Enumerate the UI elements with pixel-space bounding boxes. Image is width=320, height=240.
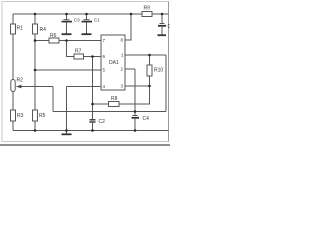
capacitor C3 thick plate <box>62 21 73 23</box>
resistor R8 <box>109 102 120 107</box>
svg-text:R8: R8 <box>111 96 118 102</box>
junction node pin1 wire at R10 top <box>148 54 151 57</box>
capacitor C4 thick plate <box>132 117 140 119</box>
wire R7 to IC pin 6 <box>84 56 102 58</box>
capacitor C5 thick plate <box>158 25 166 27</box>
wire pin 8 branch to rail <box>125 14 131 40</box>
svg-text:R7: R7 <box>75 49 82 55</box>
wire R8 right segment and riser to pin3 node <box>119 86 150 104</box>
op-amp IC DA1 box <box>101 35 125 90</box>
junction node R6 wire at R7 branch <box>65 39 68 42</box>
ground bar under C3 <box>62 33 72 35</box>
wire top supply rail right part <box>152 13 169 15</box>
wire R10 bottom lead <box>149 76 151 86</box>
resistor R1 <box>11 24 16 34</box>
svg-text:R10: R10 <box>154 68 163 74</box>
wire C4 column upper <box>134 69 136 116</box>
svg-text:R1: R1 <box>17 26 24 32</box>
capacitor C1 thick plate <box>82 21 93 23</box>
wire R6 to IC pin 7 <box>59 40 101 42</box>
wire column A top lead to R1 <box>12 14 14 24</box>
resistor R10 <box>147 65 152 76</box>
wire ground column <box>66 87 68 131</box>
wire horizontal to C4 node <box>53 111 135 113</box>
resistor R9 <box>142 12 152 17</box>
potentiometer R2 wiper arrowhead <box>16 85 22 89</box>
page separator rule <box>0 144 170 146</box>
junction node pin5 wire at column B <box>34 69 37 72</box>
capacitor C4 thin plate <box>133 115 138 117</box>
svg-text:C4: C4 <box>143 116 150 122</box>
capacitor C3 bottom lead <box>66 22 68 33</box>
svg-text:C1: C1 <box>94 18 100 23</box>
capacitor C3 thin plate <box>64 19 70 21</box>
resistor R3 <box>11 110 16 121</box>
capacitor C3 top lead <box>66 14 68 20</box>
junction node rail-pin8 <box>130 13 133 16</box>
wire pin 5 from column B <box>35 69 101 71</box>
resistor R6 <box>49 38 59 43</box>
wire pin 4 to ground column corner <box>67 86 102 88</box>
svg-text:DA1: DA1 <box>109 60 119 66</box>
wire ground bus <box>13 130 169 132</box>
ground symbol bar <box>62 133 72 135</box>
svg-text:R3: R3 <box>17 113 24 119</box>
resistor R5 <box>33 110 38 121</box>
wire R1 bottom to R2 <box>12 34 14 80</box>
wire column B top lead to R4 <box>34 14 36 24</box>
wire pin 3 to R10 bottom node <box>125 85 150 87</box>
capacitor C1 top lead <box>86 14 88 20</box>
wire pin 1 to right bus <box>125 54 166 56</box>
frame right border darker <box>168 2 170 142</box>
wire column B R4 down to R5 <box>34 34 36 110</box>
junction node rail-C5 <box>161 13 164 16</box>
ground bar under C1 <box>82 33 92 35</box>
svg-text:C2: C2 <box>99 119 106 125</box>
wire right bus vertical <box>165 55 167 112</box>
wire corner down from wiper <box>52 87 54 112</box>
svg-text:R9: R9 <box>144 6 151 12</box>
wire C2 column upper from pin6 node <box>92 57 94 120</box>
junction node y111 wire at C4 column <box>134 110 137 113</box>
junction node rail-R4 <box>34 13 37 16</box>
wire R2 bottom to R3 <box>12 92 14 111</box>
wire branch down to R7 <box>67 41 75 57</box>
junction node pin3 wire at R10 bottom <box>148 85 151 88</box>
junction node bus at ground column <box>65 129 68 132</box>
junction node bus at C4 <box>134 129 137 132</box>
junction node R8 wire at C2 column <box>91 103 94 106</box>
svg-text:R5: R5 <box>39 113 46 119</box>
potentiometer R2 body <box>11 80 15 92</box>
capacitor C2 plate bottom <box>90 121 96 123</box>
junction node R6 wire at column B <box>34 39 37 42</box>
svg-text:R4: R4 <box>40 27 47 33</box>
wire C4 node to right bus corner <box>135 111 166 113</box>
wire R5 bottom to bus <box>34 121 36 131</box>
wire C2 bottom lead to bus <box>92 123 94 131</box>
wire R8 left segment from C2 node <box>93 103 109 105</box>
svg-text:C5: C5 <box>168 24 171 30</box>
svg-text:C3: C3 <box>74 18 80 23</box>
capacitor C2 plate top <box>90 119 96 121</box>
junction node bus at column B <box>34 129 37 132</box>
wire R3 bottom to ground bus corner <box>12 121 14 131</box>
svg-text:R6: R6 <box>50 33 57 39</box>
wire R6 left segment <box>35 40 49 42</box>
wire pin 2 to C4 column <box>125 68 135 70</box>
svg-text:R2: R2 <box>17 78 24 84</box>
resistor R7 <box>74 54 84 59</box>
capacitor C5 top lead <box>161 14 163 24</box>
wire top supply rail left part <box>13 13 142 15</box>
ground bar under C5 <box>158 34 167 36</box>
frame border of schematic <box>2 2 169 142</box>
capacitor C1 thin plate <box>84 19 90 21</box>
capacitor C1 bottom lead <box>86 22 88 33</box>
resistor R4 <box>33 24 38 34</box>
junction node bus at C2 <box>91 129 94 132</box>
ground symbol stub below bus <box>66 131 68 134</box>
capacitor C5 bottom lead <box>161 27 163 35</box>
junction node rail-C1 <box>85 13 88 16</box>
wire C4 bottom lead to bus <box>134 119 136 131</box>
wire R10 top lead <box>149 55 151 65</box>
capacitor C5 thin plate <box>160 23 165 25</box>
wire R2 wiper to corner <box>17 86 54 88</box>
junction node pin6 wire at C2 column <box>91 55 94 58</box>
junction node rail-C3 <box>65 13 68 16</box>
